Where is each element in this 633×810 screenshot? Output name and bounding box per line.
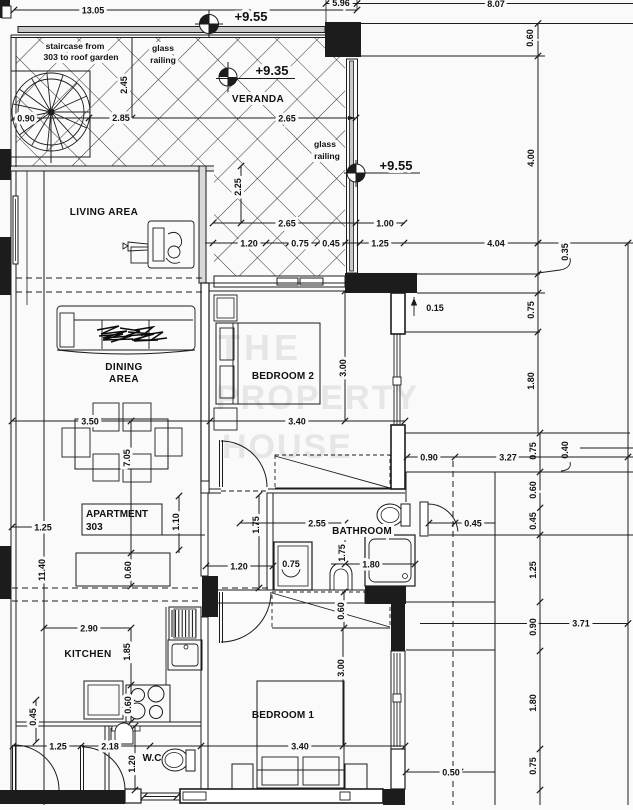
svg-text:0.35: 0.35: [560, 243, 570, 261]
dim 1.20 kitchen door: [206, 565, 273, 567]
svg-text:0.60: 0.60: [123, 696, 133, 714]
wc basin: [115, 723, 133, 744]
bathroom left wall: [267, 493, 273, 590]
dim 3.40 3.50 line y421: [12, 420, 405, 422]
svg-text:0.75: 0.75: [526, 301, 536, 319]
wall left black pier upper: [0, 237, 11, 295]
dim top 5.96: [326, 3, 360, 5]
svg-text:railing: railing: [150, 55, 176, 65]
svg-text:3.00: 3.00: [336, 659, 346, 677]
bedroom1 right wall lower: [391, 749, 405, 789]
dim 2.55: [240, 522, 345, 524]
svg-text:KITCHEN: KITCHEN: [64, 649, 111, 660]
dim 7.05 vertical: [130, 421, 132, 553]
svg-text:3.40: 3.40: [288, 417, 306, 427]
dim row y746: 1.25 2.18 3.40: [13, 745, 405, 747]
svg-text:2.25: 2.25: [233, 178, 243, 196]
dim extension top verticals: [325, 0, 327, 22]
svg-text:1.25: 1.25: [371, 239, 389, 249]
veranda right glass railing: [347, 59, 358, 273]
bedroom2 right wall lower jamb: [391, 425, 405, 489]
bottom wall black left: [0, 790, 125, 804]
bottom opening lines: [141, 792, 180, 794]
svg-text:2.45: 2.45: [119, 76, 129, 94]
living right wall: [199, 166, 206, 283]
bed1 side table left: [232, 764, 253, 789]
svg-text:0.90: 0.90: [17, 114, 35, 124]
lines extending right of column: [361, 23, 633, 25]
dashed slab line kitchen 1: [12, 587, 270, 589]
kitchen sink: [168, 640, 202, 670]
dim 2.90: [44, 627, 131, 629]
dim 1.75 bathroom vertical: [344, 540, 346, 564]
dashed slab line kitchen 2: [12, 600, 216, 602]
kitchen island counter: [76, 553, 170, 586]
column top black: [325, 22, 361, 57]
dim 0.45 y523: [429, 522, 495, 524]
bedroom1 wardrobe: [272, 592, 390, 628]
svg-text:13.05: 13.05: [82, 6, 105, 16]
staircase box: [11, 71, 90, 157]
svg-text:303 to roof garden: 303 to roof garden: [44, 52, 119, 62]
veranda hatched floor lower: [214, 166, 345, 276]
dim 1.75 vertical corridor: [258, 495, 260, 590]
svg-text:1.20: 1.20: [230, 562, 248, 572]
svg-text:glass: glass: [152, 43, 174, 53]
svg-text:2.18: 2.18: [101, 742, 119, 752]
bed2 pillows: [220, 328, 234, 360]
dining chair left: [62, 428, 90, 457]
dim top 13.05: [14, 9, 357, 11]
svg-text:1.25: 1.25: [528, 561, 538, 579]
svg-text:0.60: 0.60: [336, 602, 346, 620]
dining chair bottom2: [123, 454, 151, 482]
svg-text:0.40: 0.40: [560, 441, 570, 459]
bed bedroom1: [257, 681, 344, 788]
kitchen stove: [126, 685, 170, 722]
bed1 pillows: [262, 757, 298, 785]
bedroom2/bathroom wall: [201, 488, 405, 490]
svg-text:2.65: 2.65: [278, 219, 296, 229]
svg-text:AREA: AREA: [109, 374, 139, 385]
corridor floor line: [162, 534, 205, 536]
kitchen/wc wall: [16, 721, 201, 723]
dim 3.71: [625, 620, 631, 626]
bedroom1 right window: [391, 651, 405, 749]
svg-text:4.00: 4.00: [526, 149, 536, 167]
dim 1.10 vertical: [178, 496, 180, 553]
dim 1.80 bathroom: [331, 563, 415, 565]
dim 3.00 bedroom2: [344, 291, 346, 421]
svg-text:1.85: 1.85: [122, 643, 132, 661]
svg-text:APARTMENT: APARTMENT: [86, 509, 148, 520]
line 3.71 y623: [420, 623, 628, 625]
line right y650: [406, 649, 495, 651]
left wall inner line: [26, 171, 28, 305]
line 0.40 y448: [580, 447, 633, 449]
wall top-left black corner: [0, 0, 10, 18]
svg-text:0.60: 0.60: [525, 29, 535, 47]
dining chair top2: [123, 403, 151, 431]
svg-text:11.40: 11.40: [37, 559, 47, 581]
spiral staircase: [12, 73, 90, 151]
dim 0.90 3.27 row y457: [406, 456, 633, 458]
svg-text:7.05: 7.05: [122, 449, 132, 467]
veranda top wall: [11, 34, 360, 36]
black column kitchen corridor: [202, 576, 218, 617]
svg-text:3.71: 3.71: [572, 619, 590, 629]
svg-text:4.04: 4.04: [487, 239, 505, 249]
top railing band: [18, 27, 325, 33]
svg-text:BEDROOM 1: BEDROOM 1: [252, 710, 315, 721]
dim row y223: 2.65 1.00: [213, 222, 405, 224]
bed bedroom2: [216, 323, 320, 404]
door bedroom1: [219, 592, 221, 643]
dim 0.60 wardrobe1 vertical: [343, 592, 345, 628]
svg-text:1.80: 1.80: [528, 694, 538, 712]
dim 3.00 bedroom1 vertical: [342, 628, 344, 746]
veranda sliding door thresholds: [277, 278, 298, 285]
svg-text:0.45: 0.45: [464, 519, 482, 529]
line right y433: [405, 432, 630, 434]
svg-text:+9.35: +9.35: [256, 63, 289, 78]
svg-text:0.45: 0.45: [528, 512, 538, 530]
line right y472: [406, 471, 633, 473]
svg-text:303: 303: [86, 522, 103, 533]
line right y293: [417, 292, 545, 294]
veranda hatched floor upper: [16, 37, 345, 166]
living small table: [131, 247, 148, 263]
bedroom1 wardrobe front: [272, 627, 390, 629]
wall bedroom1 left: [201, 617, 208, 790]
sofa cushions scribble: [97, 326, 167, 342]
bed2 side table bottom: [214, 408, 237, 430]
door bottom-left 1: [12, 745, 14, 790]
dim 0.45 left bottom: [35, 700, 37, 742]
bedroom1 right wall black bottom: [383, 789, 405, 805]
svg-text:VERANDA: VERANDA: [232, 94, 284, 105]
dim 1.25 y527: [12, 526, 44, 528]
line right long vertical x628: [627, 243, 629, 805]
dim 11.40 vertical x44: [43, 171, 45, 805]
bed1 side table right: [345, 764, 367, 789]
svg-text:5.96: 5.96: [332, 0, 350, 8]
svg-text:railing: railing: [314, 151, 340, 161]
line right y602: [406, 601, 495, 603]
dim row y243: 1.20 0.75 0.45 1.25 4.04: [205, 242, 633, 244]
svg-text:0.75: 0.75: [528, 757, 538, 775]
bedroom2 right window: [393, 334, 395, 425]
bathroom bottom wall: [217, 590, 365, 603]
dining chair right: [155, 428, 182, 456]
living sofa: [57, 306, 195, 354]
svg-text:+9.55: +9.55: [380, 158, 413, 173]
svg-text:1.20: 1.20: [240, 239, 258, 249]
bathroom shower tray 1.80: [365, 535, 415, 586]
elevation marker +9.55 right: [344, 160, 420, 187]
dim top 8.07: [360, 3, 633, 5]
dim 0.50 bottom right: [406, 771, 495, 773]
dashed slab line living 2: [16, 291, 205, 293]
svg-text:BEDROOM 2: BEDROOM 2: [252, 371, 315, 382]
dim 0.15 with arrow: [412, 297, 417, 316]
dim 0.60 island vertical: [130, 553, 132, 586]
armchair with figure: [123, 221, 194, 268]
dining table: [75, 419, 168, 469]
svg-text:3.27: 3.27: [499, 453, 517, 463]
kitchen oven: [84, 681, 123, 719]
svg-text:1.25: 1.25: [34, 523, 52, 533]
svg-text:LIVING AREA: LIVING AREA: [70, 207, 138, 218]
bedroom2 wardrobe: [275, 455, 390, 489]
svg-text:staircase from: staircase from: [46, 41, 105, 51]
svg-text:W.C: W.C: [143, 753, 162, 764]
door bottom-left 2: [80, 745, 82, 790]
svg-text:DINING: DINING: [105, 362, 142, 373]
wall outer left: [10, 35, 12, 790]
svg-text:glass: glass: [314, 139, 336, 149]
line right y535: [429, 534, 633, 536]
line right y332: [405, 331, 540, 333]
svg-text:+9.55: +9.55: [235, 9, 268, 24]
svg-text:0.60: 0.60: [528, 481, 538, 499]
line right y274: [417, 273, 540, 275]
door bathroom: [420, 502, 428, 536]
svg-text:0.45: 0.45: [322, 239, 340, 249]
dim 0.60 kitchen vertical: [130, 685, 132, 722]
dim right chain x538: [537, 24, 539, 57]
svg-text:0.90: 0.90: [528, 618, 538, 636]
svg-text:1.00: 1.00: [376, 219, 394, 229]
line right long vertical x495: [494, 472, 496, 805]
elevation marker +9.35: [216, 62, 295, 93]
svg-text:3.00: 3.00: [338, 359, 348, 377]
black wall bathroom bottom right: [365, 586, 406, 604]
svg-text:1.80: 1.80: [526, 372, 536, 390]
kitchen counter edge: [165, 607, 167, 685]
svg-text:2.90: 2.90: [80, 624, 98, 634]
svg-text:HOUSE: HOUSE: [222, 428, 353, 466]
corridor wall above column: [201, 493, 208, 576]
wc toilet: [162, 749, 188, 771]
bedroom1 right wall black top: [391, 604, 405, 651]
left wall window living: [13, 196, 18, 264]
staircase arrow line: [50, 112, 52, 163]
svg-text:1.20: 1.20: [127, 755, 137, 773]
svg-text:2.65: 2.65: [278, 114, 296, 124]
svg-text:2.55: 2.55: [308, 519, 326, 529]
svg-text:THE: THE: [218, 327, 302, 368]
veranda bottom wall band: [214, 276, 345, 287]
bed2 headboard: [216, 323, 233, 404]
wall left black pier lower: [0, 546, 11, 599]
dashed slab line living 1: [16, 277, 205, 279]
svg-text:8.07: 8.07: [487, 0, 505, 9]
svg-text:1.75: 1.75: [337, 544, 347, 562]
bathroom shower 0.75 box: [274, 542, 312, 590]
svg-text:0.15: 0.15: [426, 303, 444, 313]
dim 2.25 vertical: [240, 166, 242, 223]
svg-text:3.50: 3.50: [81, 417, 99, 427]
living area top wall: [11, 165, 214, 167]
dining chair bottom1: [93, 454, 119, 481]
svg-text:0.50: 0.50: [442, 768, 460, 778]
corridor-dining opening jambs: [201, 481, 209, 493]
svg-text:1.25: 1.25: [49, 742, 67, 752]
svg-text:1.80: 1.80: [362, 560, 380, 570]
dim 1.85 vertical: [130, 628, 132, 685]
svg-text:0.45: 0.45: [28, 708, 38, 726]
wc left wall: [104, 726, 106, 790]
svg-text:BATHROOM: BATHROOM: [332, 526, 392, 537]
dashed vertical line right area: [452, 461, 454, 805]
wall left black pier mid-top: [0, 149, 11, 180]
label APARTMENT 303: [82, 504, 162, 535]
black wall top of bedroom2: [345, 273, 417, 293]
bedroom2 left wall: [201, 283, 209, 493]
bedroom2 right wall upper jamb: [391, 293, 405, 334]
dining chair top1: [93, 403, 119, 431]
svg-text:PROPERTY: PROPERTY: [216, 379, 419, 417]
dim 2.45 vertical: [131, 37, 133, 118]
bedroom2 top wall: [209, 282, 345, 284]
elevation marker +9.55 top: [195, 10, 223, 38]
bathroom basin: [330, 563, 352, 590]
dim row y118: 0.90 2.85 2.65: [14, 117, 356, 119]
svg-text:2.85: 2.85: [112, 113, 130, 123]
svg-text:0.75: 0.75: [282, 559, 300, 569]
door wc small: [110, 728, 112, 744]
dim 1.20 wc vertical: [134, 726, 136, 790]
svg-text:0.75: 0.75: [291, 239, 309, 249]
kitchen fridge: [169, 607, 201, 640]
door bedroom2: [219, 440, 221, 487]
svg-text:0.90: 0.90: [420, 453, 438, 463]
bottom window band bedroom1: [180, 789, 383, 803]
bed2 side table top: [214, 295, 237, 321]
svg-text:3.40: 3.40: [291, 742, 309, 752]
svg-text:1.75: 1.75: [251, 516, 261, 534]
svg-text:1.10: 1.10: [171, 513, 181, 531]
bathroom toilet: [377, 504, 403, 526]
watermark THE PROPERTY HOUSE: [216, 327, 419, 466]
svg-text:0.60: 0.60: [123, 561, 133, 579]
bottom door jamb box: [125, 789, 141, 803]
